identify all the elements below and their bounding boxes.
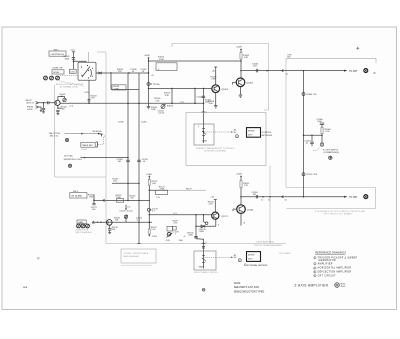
svg-text:MAIN DIAGRAM: MAIN DIAGRAM xyxy=(124,255,139,258)
svg-text:BEST BLANKING: BEST BLANKING xyxy=(76,231,93,234)
collector stub xyxy=(58,97,65,101)
diode row xyxy=(196,225,216,227)
ref item 1 xyxy=(314,257,316,259)
svg-text:52: 52 xyxy=(261,199,263,201)
mode bold box 2 xyxy=(247,252,261,262)
LEVEL label box xyxy=(52,70,64,74)
tick at rail bottom xyxy=(138,243,141,245)
svg-text:450C: 450C xyxy=(341,286,346,288)
ground mini box xyxy=(69,69,76,73)
connector pin 1 xyxy=(36,102,39,105)
+300V rail x=148.5 xyxy=(148,58,150,106)
ref item 2 xyxy=(314,262,316,264)
rail arrow xyxy=(148,57,150,59)
connector pair on y=73 wire xyxy=(100,72,102,74)
bias wire y=73 xyxy=(96,72,149,74)
svg-text:+300V: +300V xyxy=(236,47,243,49)
supply rail from relay +12V xyxy=(88,80,90,103)
registration cross xyxy=(356,47,359,50)
board outline light top edge y=58.3 xyxy=(286,58,376,63)
node xyxy=(149,190,150,191)
svg-text:CIRCUIT BOARD ASSEMBLY: CIRCUIT BOARD ASSEMBLY xyxy=(254,244,283,247)
gain label box xyxy=(77,220,86,224)
shunt branch wire xyxy=(43,103,45,108)
svg-text:SW R1040: SW R1040 xyxy=(92,131,101,133)
svg-text:REFERENCE DRAWINGS: REFERENCE DRAWINGS xyxy=(315,251,346,254)
ground symbol circled xyxy=(329,156,332,159)
switch label box xyxy=(49,51,66,56)
capacitor C1063 xyxy=(255,69,257,72)
svg-text:15K: 15K xyxy=(113,181,117,183)
svg-text:+12V: +12V xyxy=(84,92,90,94)
svg-text:3.9K: 3.9K xyxy=(211,79,216,81)
variable capacitor C1041 xyxy=(63,98,66,101)
resistor R1066 xyxy=(321,124,323,146)
arrow marker above xyxy=(125,205,127,209)
svg-text:2.5K: 2.5K xyxy=(155,100,160,102)
emitter branch xyxy=(57,105,59,108)
pin2 ground stub xyxy=(39,107,42,110)
heater wire xyxy=(81,157,129,159)
emitter network xyxy=(109,225,111,228)
capacitor C1069 xyxy=(126,159,130,161)
transistor Q1040 xyxy=(55,100,60,105)
svg-text:R1040: R1040 xyxy=(81,149,88,151)
svg-text:DEFLECTION AMPLIFIER: DEFLECTION AMPLIFIER xyxy=(318,271,352,274)
connector pair upper output xyxy=(282,69,284,71)
inner pot box 2 xyxy=(194,251,216,270)
+300V distribution wire y=61 xyxy=(149,60,242,62)
node xyxy=(194,88,195,89)
collector rail x=241 lower xyxy=(240,176,242,205)
svg-text:4.7K: 4.7K xyxy=(325,131,330,133)
nodes on wire xyxy=(138,222,140,224)
base wire y=88.5 to Q1053 xyxy=(149,88,212,90)
svg-text:EXTERNAL PATTERN: EXTERNAL PATTERN xyxy=(247,264,268,267)
base stub xyxy=(233,208,237,210)
svg-text:2.7K: 2.7K xyxy=(152,229,157,231)
svg-text:TP1050: TP1050 xyxy=(153,84,161,86)
svg-text:3: 3 xyxy=(314,268,315,270)
svg-text:R1053: R1053 xyxy=(167,105,174,107)
svg-text:150K: 150K xyxy=(179,240,184,242)
svg-text:CRT CIRCUIT: CRT CIRCUIT xyxy=(318,275,336,277)
resistor R1050 box xyxy=(156,63,177,71)
svg-text:GAIN: GAIN xyxy=(199,266,204,269)
info box xyxy=(121,249,156,263)
svg-text:R1064 1.5K: R1064 1.5K xyxy=(307,94,318,96)
svg-text:TO CRT: TO CRT xyxy=(349,197,358,199)
svg-text:L1050: L1050 xyxy=(141,122,147,124)
resistor R1183 xyxy=(240,181,242,188)
svg-text:LEVEL: LEVEL xyxy=(53,72,60,74)
svg-text:8.2K: 8.2K xyxy=(165,95,170,97)
svg-text:2: 2 xyxy=(314,263,315,265)
svg-text:+300V: +300V xyxy=(144,55,151,57)
title symbol xyxy=(335,283,340,288)
trim component xyxy=(101,134,103,137)
wire to relay xyxy=(74,61,87,62)
svg-text:HORIZONTAL AMPLIFIER: HORIZONTAL AMPLIFIER xyxy=(318,267,352,270)
capacitor C1070 xyxy=(137,159,141,161)
capacitor to ground xyxy=(56,109,59,111)
svg-text:ADJUST FOR BEST DISPLAY: ADJUST FOR BEST DISPLAY xyxy=(56,83,84,86)
node xyxy=(240,196,242,198)
svg-text:AMPLIFIER: AMPLIFIER xyxy=(318,262,333,265)
capacitor xyxy=(194,235,198,237)
node xyxy=(148,72,149,73)
trimmer R1051 xyxy=(161,105,165,109)
bracket xyxy=(96,142,98,147)
svg-text:CRT CIRCUIT CKT BOARD: CRT CIRCUIT CKT BOARD xyxy=(323,212,352,215)
capacitor C1184 xyxy=(255,195,257,198)
transistor Q1063 xyxy=(236,78,245,87)
node xyxy=(98,133,100,135)
ground xyxy=(57,113,60,115)
svg-text:2.4K: 2.4K xyxy=(244,57,249,59)
switch arc xyxy=(90,69,93,77)
svg-text:-150V: -150V xyxy=(152,236,158,238)
svg-text:6.8K: 6.8K xyxy=(209,103,214,105)
circled ground cal xyxy=(65,138,68,141)
svg-text:270K: 270K xyxy=(159,59,164,61)
trace sep label box xyxy=(81,142,95,147)
wire y=89.5 xyxy=(111,89,139,91)
svg-text:L1049: L1049 xyxy=(118,122,123,124)
node at rail xyxy=(303,70,305,72)
rail x=149.3 xyxy=(148,176,150,235)
svg-text:2.2K: 2.2K xyxy=(209,204,214,206)
ref item 3 xyxy=(314,267,316,269)
capacitor xyxy=(92,202,95,204)
svg-text:INT BLANK: INT BLANK xyxy=(71,195,82,198)
svg-text:5: 5 xyxy=(314,276,315,278)
svg-text:4.5-25: 4.5-25 xyxy=(158,112,165,114)
pot feed wire x=203.5 xyxy=(203,89,205,125)
svg-text:+300V: +300V xyxy=(236,174,243,176)
down arrow -150V xyxy=(148,235,150,237)
node xyxy=(266,70,268,72)
svg-text:15K: 15K xyxy=(115,219,119,221)
svg-text:1.5±: 1.5± xyxy=(156,197,160,199)
node junction xyxy=(73,60,75,62)
switch blade xyxy=(82,67,90,78)
dashed pointer xyxy=(313,147,320,151)
svg-text:.1: .1 xyxy=(174,234,176,236)
svg-text:1: 1 xyxy=(314,258,315,260)
transistor Q1053 xyxy=(212,85,220,93)
svg-text:4.7K: 4.7K xyxy=(91,98,96,100)
capacitor C1056 xyxy=(202,95,205,97)
fuse bead component xyxy=(302,93,305,96)
registration circle bottom xyxy=(202,288,205,291)
resistor R1062 xyxy=(240,53,242,59)
resistor R1049 box xyxy=(112,85,126,90)
output wire channel 1 xyxy=(241,70,345,72)
main signal wire channel 1 xyxy=(60,102,203,104)
neon lamp B1066 xyxy=(320,143,323,146)
svg-text:SEL D C1: SEL D C1 xyxy=(50,136,60,138)
ground for rail xyxy=(147,105,151,107)
output terminal xyxy=(364,69,368,73)
connector pin 2 xyxy=(36,106,39,109)
ref item 5 xyxy=(314,275,316,277)
svg-text:(EXT Z): (EXT Z) xyxy=(27,102,34,104)
board outline light edge y=177 xyxy=(55,176,107,178)
potentiometer R1059 xyxy=(203,124,205,143)
svg-text:ADJUST FOR: ADJUST FOR xyxy=(76,229,89,232)
wire y=183.3 xyxy=(112,182,139,184)
dashed link xyxy=(90,223,96,224)
base feed wire y=214.7 xyxy=(149,214,150,215)
svg-text:FROM PIN 10 T601: FROM PIN 10 T601 xyxy=(64,159,83,161)
svg-text:(COMMON BUS): (COMMON BUS) xyxy=(324,152,340,154)
emitter down xyxy=(240,213,242,225)
svg-text:4.5-25: 4.5-25 xyxy=(127,211,134,213)
svg-text:INTEN: INTEN xyxy=(248,131,255,133)
svg-text:AT NORMAL LEVEL: AT NORMAL LEVEL xyxy=(60,85,79,88)
switch contacts xyxy=(81,66,82,67)
wire vertical x=73.5 xyxy=(73,52,75,70)
variable arrow xyxy=(167,233,173,238)
svg-text:10K: 10K xyxy=(152,183,156,185)
inner pot box xyxy=(194,124,214,145)
svg-text:MOUNTED ON BOARD: MOUNTED ON BOARD xyxy=(205,149,227,152)
svg-text:Q1053: Q1053 xyxy=(222,89,229,91)
svg-text:100K: 100K xyxy=(65,58,70,60)
base stub xyxy=(233,81,237,83)
wire vertical x=111 xyxy=(110,73,112,90)
circled ground terminal xyxy=(68,164,71,167)
light box lower output xyxy=(287,188,376,209)
collector rail x=241 xyxy=(240,49,242,78)
svg-text:INTEN: INTEN xyxy=(248,255,255,257)
svg-text:270K: 270K xyxy=(89,196,94,198)
output terminal 2 xyxy=(364,195,368,199)
svg-text:200K: 200K xyxy=(199,231,204,233)
svg-text:1: 1 xyxy=(198,126,199,128)
svg-text:FRONT PANEL CONTROL: FRONT PANEL CONTROL xyxy=(194,271,219,274)
nodes xyxy=(127,200,129,202)
transistor Q1183 xyxy=(237,205,246,214)
registration dot left xyxy=(37,257,39,259)
rail wire x=303.5 xyxy=(303,71,305,197)
svg-text:270K: 270K xyxy=(160,189,165,191)
svg-text:-20%: -20% xyxy=(166,240,171,242)
svg-text:C1056: C1056 xyxy=(197,96,204,98)
svg-text:100K: 100K xyxy=(116,197,121,199)
light vertical x=270 lower xyxy=(269,166,271,244)
wiper dashed link xyxy=(205,131,232,133)
transistor Q1121 xyxy=(107,220,113,226)
svg-text:Q1063: Q1063 xyxy=(247,83,254,85)
fuse bead component 2 xyxy=(302,173,305,176)
svg-text:GAIN: GAIN xyxy=(202,140,207,143)
ref item 4 xyxy=(314,271,316,273)
svg-text:CAL D TRIG: CAL D TRIG xyxy=(49,132,61,135)
tick mark xyxy=(374,72,376,74)
knob shafts: three circles xyxy=(44,76,48,80)
wire vertical x=128 long xyxy=(127,73,129,200)
svg-text:N2B: N2B xyxy=(23,287,28,289)
relay coil line xyxy=(88,52,90,62)
junction tick xyxy=(202,242,206,244)
svg-text:SEMICONDUCTOR TYPES.: SEMICONDUCTOR TYPES. xyxy=(234,291,265,294)
indicator circle 2 xyxy=(238,259,241,262)
capacitor on feed xyxy=(202,246,205,248)
test point C1173 xyxy=(147,208,150,211)
nodes xyxy=(282,196,284,198)
knob circles xyxy=(77,224,81,228)
svg-text:SITY: SITY xyxy=(248,258,253,260)
outer box front panel xyxy=(186,113,266,166)
node xyxy=(128,72,129,73)
feed wire y=190.2 xyxy=(149,189,168,191)
svg-text:100K: 100K xyxy=(188,234,193,236)
svg-text:TRACE SEP: TRACE SEP xyxy=(82,144,94,147)
svg-text:x2: x2 xyxy=(184,236,186,238)
indicator circle xyxy=(236,135,239,138)
input wire xyxy=(39,102,55,104)
resistor R1175 bracket xyxy=(156,190,168,194)
capacitor to ground xyxy=(42,107,45,109)
junction xyxy=(321,135,322,136)
jog to pot feed xyxy=(196,239,204,269)
wiper dashed link 2 xyxy=(205,256,232,258)
potentiometer R1179 xyxy=(202,255,205,257)
trimmer cap C1123 xyxy=(125,215,127,223)
branch x=195 xyxy=(194,89,196,104)
board outline light line vertical x=106 xyxy=(105,52,107,244)
junction nodes on signal wire xyxy=(127,103,129,105)
capacitor C1035 top tick xyxy=(72,51,75,53)
node xyxy=(110,72,111,73)
svg-text:C1123: C1123 xyxy=(120,211,127,213)
relay contact boxes xyxy=(167,226,173,231)
node xyxy=(240,60,241,61)
mechanical dashed links xyxy=(103,137,105,145)
svg-text:CKT BOARD: CKT BOARD xyxy=(279,252,291,255)
svg-text:NOTE:: NOTE: xyxy=(234,283,241,285)
svg-text:53: 53 xyxy=(268,199,270,201)
svg-text:GENERATOR: GENERATOR xyxy=(319,259,336,262)
board outline light vertical x=54.5 xyxy=(54,85,56,177)
emitter down xyxy=(215,219,217,226)
ground xyxy=(214,105,218,107)
resistor R1052 xyxy=(171,89,173,104)
emitter to ground xyxy=(240,87,242,95)
diode CR1176 xyxy=(201,225,205,228)
svg-text:2.7K: 2.7K xyxy=(244,185,249,187)
svg-text:NETWORK: NETWORK xyxy=(262,135,273,137)
ground xyxy=(42,111,45,113)
svg-text:SEE PARTS LIST FOR: SEE PARTS LIST FOR xyxy=(234,286,259,289)
svg-text:Q1183: Q1183 xyxy=(247,209,254,211)
test point TP1050 xyxy=(147,83,150,86)
wire y=200.4 xyxy=(94,199,149,201)
connector chevron xyxy=(103,199,105,201)
svg-text:4: 4 xyxy=(314,272,315,274)
light box upper amplifier xyxy=(172,44,269,111)
arrow to CRT 2 xyxy=(344,196,348,198)
dashed adjust line xyxy=(59,81,84,86)
board outline light vertical x=286 xyxy=(285,58,287,187)
mechanical dashed link to switch xyxy=(60,75,78,77)
node xyxy=(93,200,95,202)
caption below bold box xyxy=(244,264,246,266)
svg-text:12.6 V AC: 12.6 V AC xyxy=(64,155,74,158)
capacitor C1036 xyxy=(72,57,75,59)
svg-text:R1179: R1179 xyxy=(186,189,191,191)
svg-text:100K: 100K xyxy=(151,109,156,111)
svg-text:R1072 270K: R1072 270K xyxy=(307,174,318,176)
node xyxy=(43,102,45,104)
svg-text:+75: +75 xyxy=(151,75,154,77)
+30V stub xyxy=(214,200,216,213)
svg-text:Z AXIS AMPLIFIER: Z AXIS AMPLIFIER xyxy=(295,284,329,288)
capacitor C1066 xyxy=(320,122,324,124)
svg-text:LEVEL ON: LEVEL ON xyxy=(53,68,63,70)
board outline light line top segment xyxy=(97,51,106,53)
mode bold box xyxy=(247,128,261,138)
svg-text:GAIN: GAIN xyxy=(78,221,83,224)
ground xyxy=(40,109,42,111)
node branch xyxy=(303,134,305,136)
branch wire y=135.2 xyxy=(304,134,323,136)
svg-text:100K: 100K xyxy=(114,88,119,90)
svg-text:5: 5 xyxy=(206,242,207,244)
relay switch box K1035 xyxy=(78,62,96,80)
arrow to CRT xyxy=(344,70,348,72)
svg-text:Q1173: Q1173 xyxy=(222,216,229,218)
svg-text:4.7: 4.7 xyxy=(152,211,155,213)
svg-text:TO CRT SUPPLY: TO CRT SUPPLY xyxy=(323,149,339,151)
capacitor C1067 branch xyxy=(311,135,312,136)
resistor R1178 xyxy=(148,229,150,234)
transistor Q1173 xyxy=(212,212,219,219)
resistor R1122 on wire xyxy=(116,199,123,203)
+30V stub xyxy=(215,67,217,85)
emitter resistor to ground xyxy=(215,93,217,106)
svg-text:2: 2 xyxy=(104,136,105,138)
svg-text:J1040: J1040 xyxy=(27,109,33,111)
svg-text:FOR ALL CIRCUITS SEE A: FOR ALL CIRCUITS SEE A xyxy=(124,252,149,255)
light bracket lower right xyxy=(287,208,376,210)
svg-text:SITY: SITY xyxy=(248,134,253,136)
junction tick x xyxy=(202,111,206,113)
node xyxy=(171,88,172,89)
lamp B1177 xyxy=(167,232,171,236)
svg-text:TO CRT: TO CRT xyxy=(349,71,358,73)
cal wire xyxy=(65,133,102,135)
resistor R1172 xyxy=(148,180,150,186)
node base wire xyxy=(148,88,149,89)
board outline light bottom edge y=243.5 xyxy=(106,243,286,245)
wire vertical x=139 long xyxy=(138,73,140,244)
node wire crossing xyxy=(149,222,151,224)
svg-text:4.7K: 4.7K xyxy=(173,223,178,225)
switch label box 2 xyxy=(70,193,87,198)
capacitor C1040 xyxy=(47,101,49,104)
svg-text:Z AXIS AMPLIFIER: Z AXIS AMPLIFIER xyxy=(256,241,275,244)
node x=203.5 xyxy=(203,88,204,89)
